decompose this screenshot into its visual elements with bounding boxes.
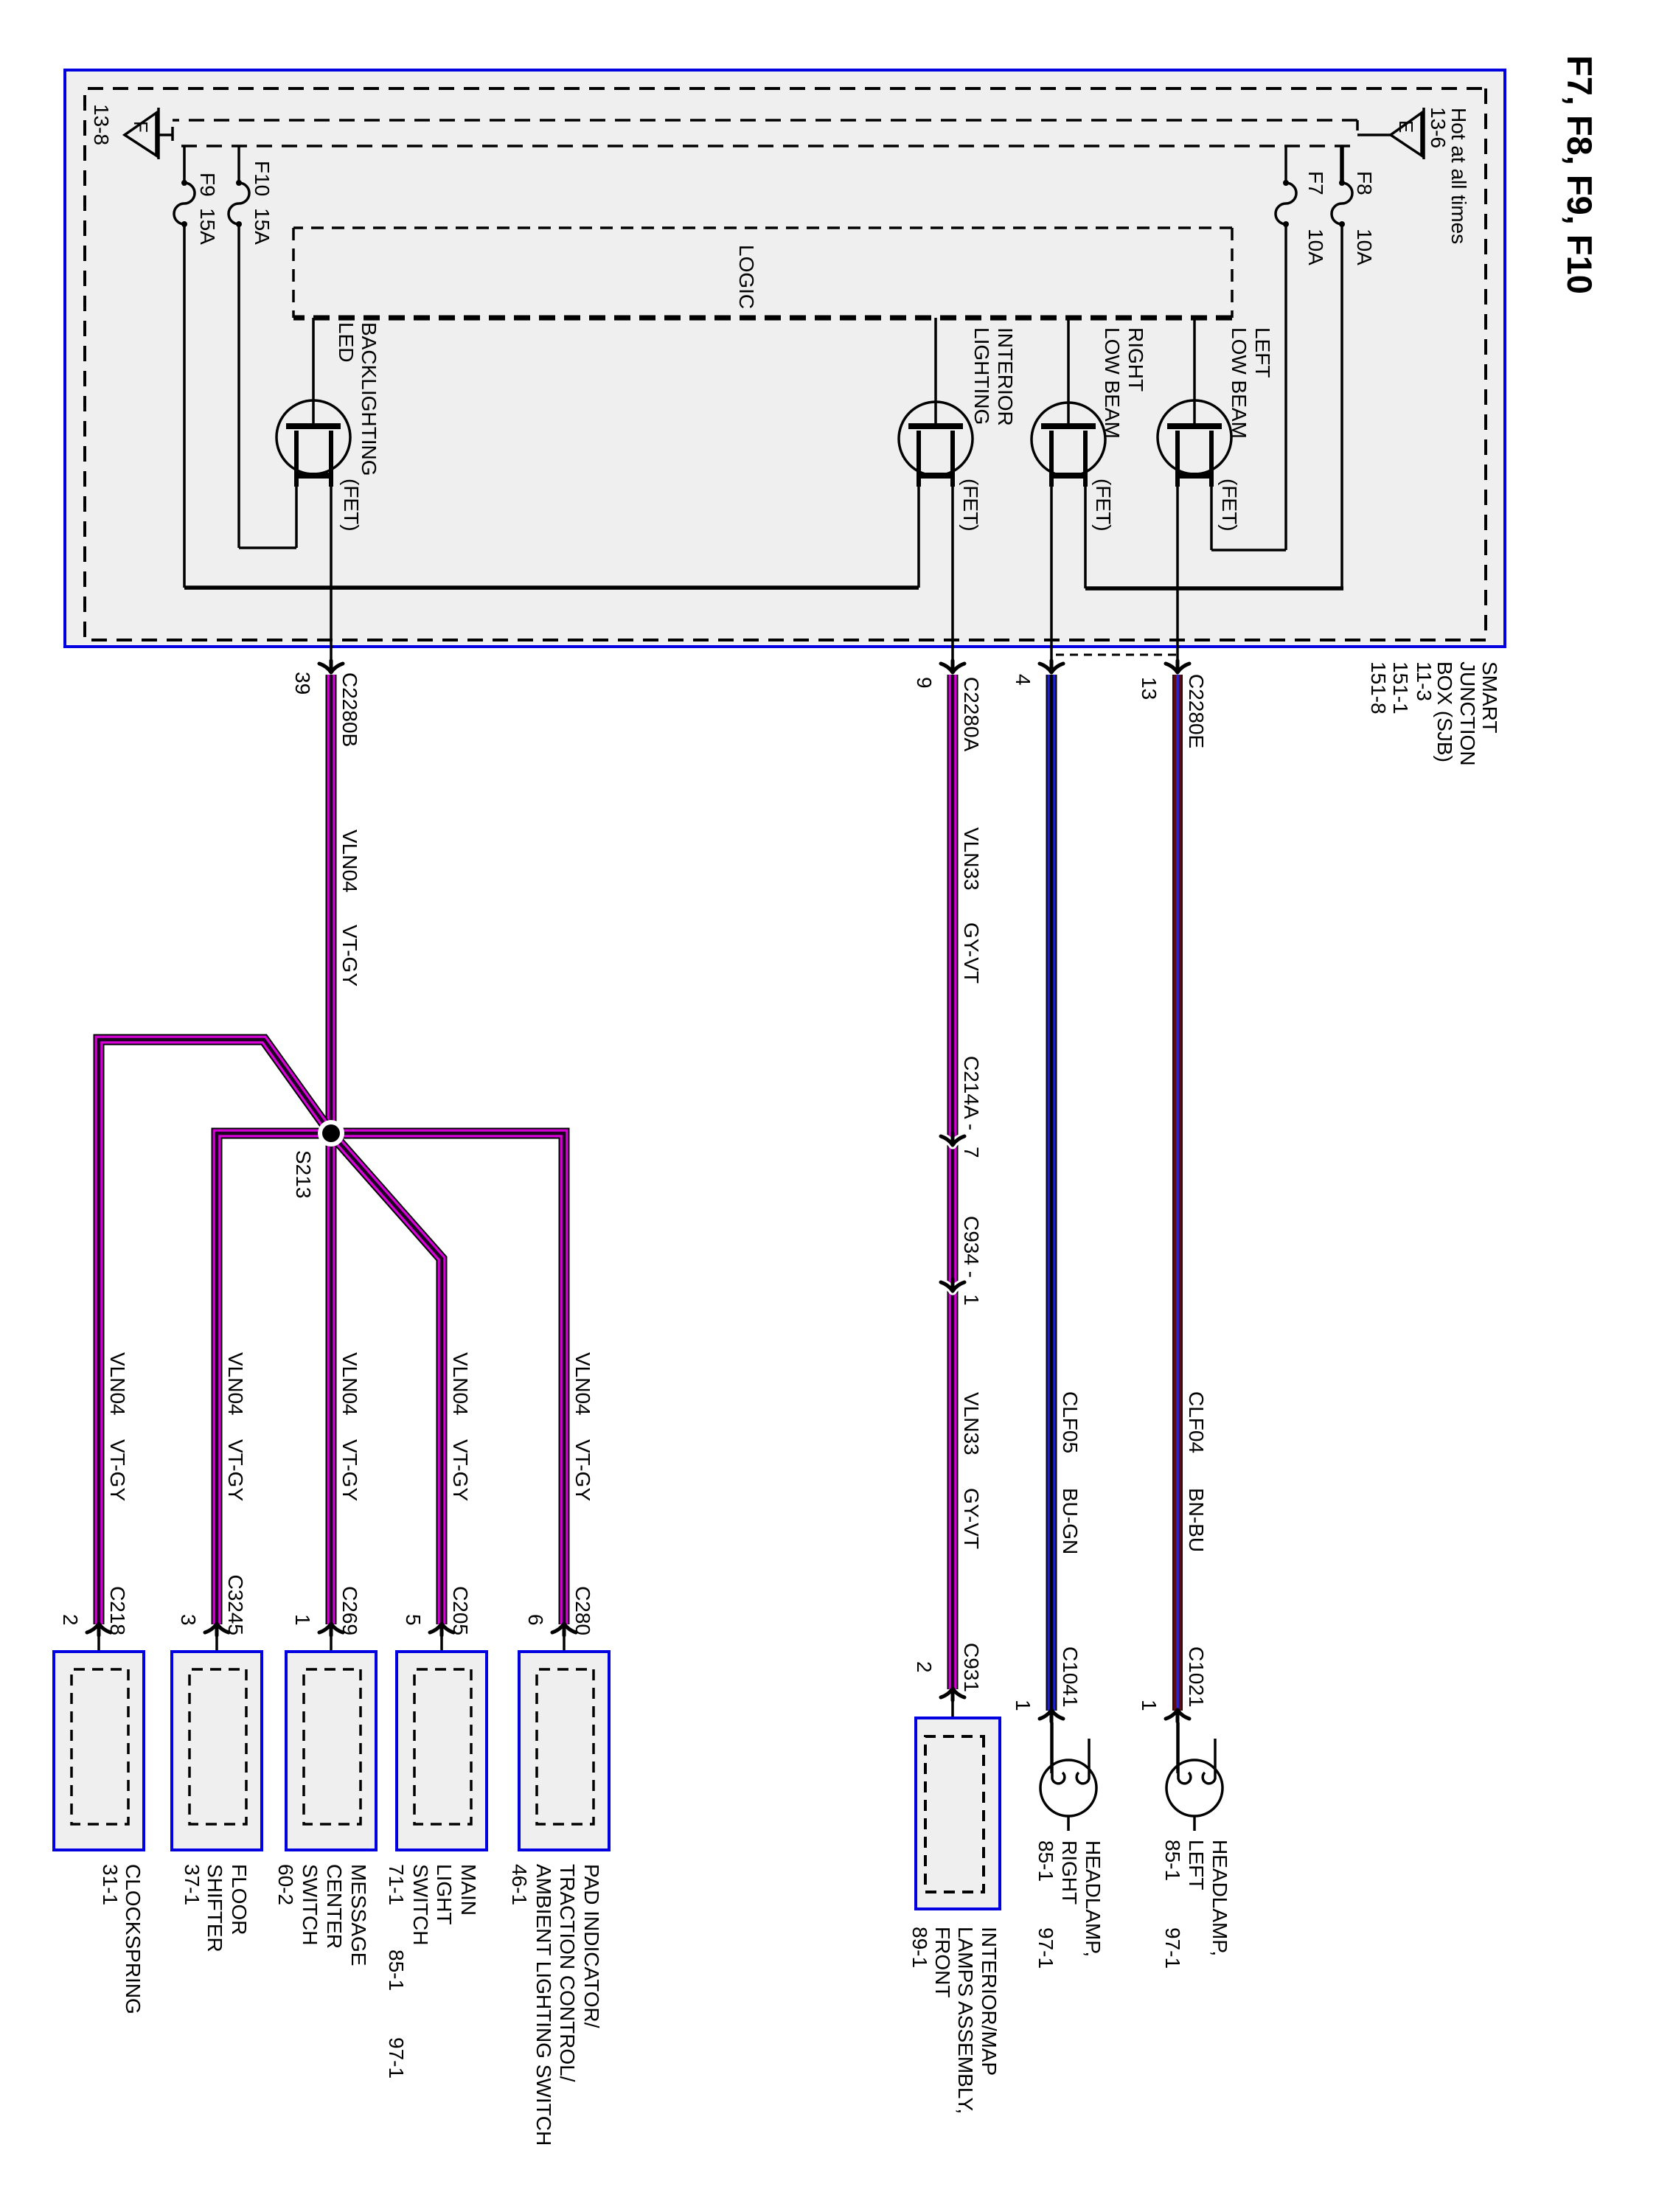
- svg-text:46-1: 46-1: [508, 1864, 531, 1905]
- wire FET1 lower leg to F10: [295, 483, 298, 548]
- svg-text:2: 2: [913, 1661, 936, 1673]
- clockspring box: [54, 1652, 144, 1850]
- svg-text:3: 3: [177, 1614, 200, 1626]
- F7 elbow to left low beam FET: [1211, 549, 1286, 552]
- svg-text:LOW BEAM: LOW BEAM: [1228, 327, 1251, 439]
- svg-text:TRACTION CONTROL/: TRACTION CONTROL/: [556, 1864, 579, 2082]
- svg-text:C269: C269: [338, 1586, 361, 1635]
- svg-text:SHIFTER: SHIFTER: [204, 1864, 226, 1952]
- svg-text:LIGHT: LIGHT: [433, 1864, 456, 1924]
- svg-text:CLF04: CLF04: [1185, 1391, 1208, 1453]
- svg-text:37-1: 37-1: [181, 1864, 204, 1905]
- svg-text:JUNCTION: JUNCTION: [1456, 661, 1479, 766]
- svg-text:1: 1: [1138, 1700, 1161, 1711]
- FET U1 backlighting LED: [276, 318, 350, 487]
- svg-text:C2280A: C2280A: [960, 677, 983, 752]
- floor shifter box: [172, 1652, 262, 1850]
- svg-text:CENTER: CENTER: [323, 1864, 346, 1949]
- connector C269 pin 1: [319, 1624, 343, 1635]
- fuse F8 wire: [1340, 146, 1344, 183]
- svg-text:VLN04: VLN04: [338, 829, 361, 893]
- svg-text:C3245: C3245: [224, 1574, 247, 1635]
- svg-text:97-1: 97-1: [385, 2037, 408, 2079]
- svg-text:CLF05: CLF05: [1059, 1391, 1082, 1453]
- wire CLF04 BN-BU to headlamp left: [1172, 675, 1183, 1711]
- connector C205 pin 5: [430, 1624, 453, 1635]
- svg-text:85-1: 85-1: [385, 1950, 408, 1991]
- svg-text:LOGIC: LOGIC: [735, 245, 758, 309]
- wire VLN33 GY-VT to interior/map lamps: [947, 675, 959, 1689]
- svg-text:F7: F7: [1304, 171, 1327, 195]
- svg-text:(FET): (FET): [340, 479, 363, 532]
- connector arrow pin 4: [1040, 661, 1063, 672]
- T-bar and wire from F triangle to rails: [159, 127, 173, 141]
- svg-text:71-1: 71-1: [385, 1864, 408, 1905]
- connector arrow C2280E pin 13: [1166, 661, 1189, 672]
- FET U2 interior lighting: [899, 318, 973, 487]
- main light switch box: [397, 1652, 487, 1850]
- svg-text:VT-GY: VT-GY: [338, 925, 361, 987]
- pad indicator switch box: [519, 1652, 609, 1850]
- svg-text:97-1: 97-1: [1034, 1927, 1057, 1969]
- connector C3245 pin 3: [205, 1624, 229, 1635]
- wire into interior/map lamps box: [951, 1701, 954, 1738]
- wire CLF05 BU-GN to headlamp right: [1046, 675, 1057, 1711]
- svg-text:6: 6: [524, 1614, 547, 1626]
- svg-text:C934 -: C934 -: [960, 1216, 983, 1278]
- svg-text:15A: 15A: [196, 208, 219, 245]
- svg-text:C1041: C1041: [1059, 1646, 1082, 1708]
- LOGIC box dashed: [293, 226, 1232, 229]
- svg-text:F: F: [130, 121, 152, 133]
- svg-text:60-2: 60-2: [274, 1864, 297, 1905]
- svg-text:1: 1: [291, 1614, 314, 1626]
- svg-text:S213: S213: [292, 1150, 315, 1198]
- svg-text:VT-GY: VT-GY: [106, 1439, 129, 1501]
- connector arrow C2280B pin 39: [319, 661, 343, 672]
- svg-text:LIGHTING: LIGHTING: [970, 327, 993, 425]
- message center switch box: [286, 1652, 376, 1850]
- FET U3 right low beam: [1032, 318, 1105, 487]
- svg-text:C280: C280: [571, 1586, 594, 1635]
- SJB smart junction box outline: [65, 70, 1505, 647]
- svg-text:39: 39: [291, 672, 314, 695]
- wire into headlamp right bulb: [1050, 1722, 1053, 1773]
- power rail bus 1 (dashed): [173, 119, 1357, 122]
- svg-text:SMART: SMART: [1478, 661, 1501, 734]
- connector C280 pin 6: [552, 1624, 576, 1635]
- svg-text:(FET): (FET): [959, 479, 982, 532]
- fuse F7 wire: [1284, 146, 1287, 550]
- svg-text:C214A -: C214A -: [960, 1056, 983, 1130]
- svg-text:C205: C205: [449, 1586, 472, 1635]
- svg-text:10A: 10A: [1353, 229, 1376, 265]
- wire FET1 upper leg to connector 39: [330, 483, 333, 668]
- F8 bus to right low beam FET: [1085, 586, 1343, 591]
- svg-text:85-1: 85-1: [1161, 1840, 1184, 1881]
- connector C1041 pin 1: [1040, 1710, 1063, 1722]
- fuse F7: [1276, 180, 1296, 227]
- branch wire to main light switch: [331, 1133, 442, 1624]
- power triangle F: [125, 108, 159, 159]
- svg-text:LED: LED: [335, 322, 358, 362]
- svg-text:2: 2: [59, 1614, 82, 1626]
- svg-text:VLN04: VLN04: [224, 1352, 247, 1416]
- main wire VLN04 VT-GY from C2280B: [326, 675, 337, 1624]
- fuse F9 wire: [183, 146, 186, 588]
- svg-text:Hot at all times: Hot at all times: [1447, 108, 1470, 244]
- svg-text:C2280B: C2280B: [338, 672, 361, 747]
- svg-text:VLN33: VLN33: [960, 1392, 983, 1455]
- headlamp left bulb: [1166, 1722, 1222, 1831]
- svg-text:9: 9: [913, 677, 936, 689]
- svg-text:VT-GY: VT-GY: [571, 1439, 594, 1501]
- branch wire to clockspring: [99, 1040, 331, 1624]
- svg-text:13-8: 13-8: [90, 104, 113, 145]
- svg-text:SWITCH: SWITCH: [409, 1864, 432, 1945]
- F10 elbow to backlighting FET: [239, 546, 296, 549]
- svg-text:97-1: 97-1: [1161, 1927, 1184, 1969]
- svg-text:85-1: 85-1: [1034, 1840, 1057, 1882]
- SJB label block: [1367, 661, 1501, 766]
- svg-text:(FET): (FET): [1218, 479, 1241, 532]
- svg-text:31-1: 31-1: [99, 1864, 122, 1905]
- svg-text:(FET): (FET): [1092, 479, 1115, 532]
- svg-text:C931: C931: [960, 1643, 983, 1692]
- svg-text:VT-GY: VT-GY: [338, 1439, 361, 1501]
- svg-text:1: 1: [960, 1294, 983, 1306]
- svg-text:RIGHT: RIGHT: [1058, 1840, 1081, 1905]
- svg-text:F7, F8, F9, F10: F7, F8, F9, F10: [1560, 55, 1599, 294]
- svg-text:SWITCH: SWITCH: [299, 1864, 321, 1945]
- svg-text:10A: 10A: [1304, 229, 1327, 265]
- wire FET2 upper leg to connector 9: [951, 483, 954, 668]
- SJB inner dashed border: [85, 88, 1486, 640]
- fuse F10 wire: [237, 146, 240, 548]
- svg-text:151-8: 151-8: [1367, 661, 1390, 714]
- svg-text:89-1: 89-1: [908, 1927, 931, 1968]
- svg-text:INTERIOR/MAP: INTERIOR/MAP: [978, 1927, 1001, 2076]
- wire from E triangle to rails: [1357, 133, 1391, 136]
- svg-text:5: 5: [402, 1614, 425, 1626]
- FET U4 left low beam: [1158, 318, 1231, 487]
- svg-text:13: 13: [1138, 677, 1161, 700]
- svg-text:13-6: 13-6: [1427, 107, 1450, 148]
- fuse F9: [174, 180, 195, 227]
- svg-text:VT-GY: VT-GY: [224, 1439, 247, 1501]
- svg-text:7: 7: [960, 1147, 983, 1158]
- svg-text:RIGHT: RIGHT: [1124, 327, 1147, 392]
- svg-text:FLOOR: FLOOR: [228, 1864, 251, 1935]
- svg-text:E: E: [1395, 120, 1417, 133]
- branch wire to floor shifter and pad switch (cross): [217, 1133, 564, 1624]
- svg-text:LEFT: LEFT: [1251, 327, 1274, 378]
- svg-text:LEFT: LEFT: [1185, 1840, 1208, 1890]
- wire FET4 upper leg to F7: [1210, 483, 1213, 550]
- svg-text:F8: F8: [1353, 171, 1376, 195]
- wire FET3 upper leg to F8 bus: [1084, 483, 1087, 588]
- splice S213: [318, 1120, 344, 1147]
- dashed bracket joining pins 4 and 13: [1051, 655, 1178, 667]
- svg-text:1: 1: [1012, 1700, 1034, 1711]
- connector C1021 pin 1: [1166, 1710, 1189, 1722]
- wire FET2 lower leg to F9 bus: [917, 483, 920, 588]
- svg-text:BOX (SJB): BOX (SJB): [1433, 661, 1456, 762]
- svg-text:HEADLAMP,: HEADLAMP,: [1208, 1840, 1231, 1956]
- svg-text:VT-GY: VT-GY: [449, 1439, 472, 1501]
- svg-text:BU-GN: BU-GN: [1059, 1488, 1082, 1554]
- svg-text:VLN04: VLN04: [338, 1352, 361, 1416]
- svg-text:INTERIOR: INTERIOR: [994, 327, 1017, 426]
- F9 bus to interior lighting FET: [184, 585, 919, 590]
- svg-text:C218: C218: [106, 1586, 129, 1635]
- svg-text:C1021: C1021: [1185, 1646, 1208, 1708]
- svg-text:PAD INDICATOR/: PAD INDICATOR/: [580, 1864, 603, 2028]
- connector arrow C2280A pin 9: [941, 661, 964, 672]
- inline connector C934 pin 1: [941, 1282, 964, 1291]
- wire FET3 lower leg to connector 4: [1050, 483, 1053, 668]
- svg-text:C2280E: C2280E: [1185, 674, 1208, 748]
- headlamp right bulb: [1040, 1722, 1096, 1831]
- svg-text:VLN33: VLN33: [960, 827, 983, 891]
- inline connector C214A pin 7: [941, 1136, 964, 1145]
- svg-text:BACKLIGHTING: BACKLIGHTING: [358, 322, 380, 476]
- connector C218 pin 2: [87, 1624, 111, 1635]
- wire FET4 lower leg to connector 13: [1176, 483, 1179, 668]
- svg-text:151-1: 151-1: [1389, 661, 1412, 714]
- svg-text:VLN04: VLN04: [106, 1352, 129, 1416]
- svg-text:4: 4: [1012, 674, 1034, 686]
- svg-text:GY-VT: GY-VT: [960, 1488, 983, 1549]
- interior/map lamps assembly box: [916, 1718, 1000, 1909]
- svg-text:VLN04: VLN04: [449, 1352, 472, 1416]
- fuse F8: [1332, 180, 1352, 227]
- fuse F10: [229, 180, 249, 227]
- svg-text:AMBIENT LIGHTING SWITCH: AMBIENT LIGHTING SWITCH: [532, 1864, 555, 2146]
- svg-text:LOW BEAM: LOW BEAM: [1101, 327, 1124, 439]
- power triangle E: [1391, 108, 1424, 159]
- power rail bus 2 (dashed): [174, 145, 1350, 147]
- svg-text:BN-BU: BN-BU: [1185, 1488, 1208, 1552]
- svg-text:15A: 15A: [251, 208, 274, 245]
- svg-text:LAMPS ASSEMBLY,: LAMPS ASSEMBLY,: [954, 1927, 977, 2114]
- connector C931 pin 2: [941, 1688, 964, 1700]
- svg-text:FRONT: FRONT: [931, 1927, 954, 1997]
- svg-text:F10: F10: [251, 161, 274, 196]
- svg-text:MESSAGE: MESSAGE: [347, 1864, 370, 1966]
- svg-text:CLOCKSPRING: CLOCKSPRING: [122, 1864, 145, 2014]
- svg-text:GY-VT: GY-VT: [960, 922, 983, 984]
- svg-text:HEADLAMP,: HEADLAMP,: [1082, 1840, 1105, 1957]
- svg-text:11-3: 11-3: [1413, 661, 1436, 701]
- svg-text:MAIN: MAIN: [457, 1864, 480, 1916]
- svg-text:VLN04: VLN04: [571, 1352, 594, 1416]
- wire into headlamp left bulb: [1176, 1722, 1179, 1773]
- svg-text:F9: F9: [196, 173, 219, 197]
